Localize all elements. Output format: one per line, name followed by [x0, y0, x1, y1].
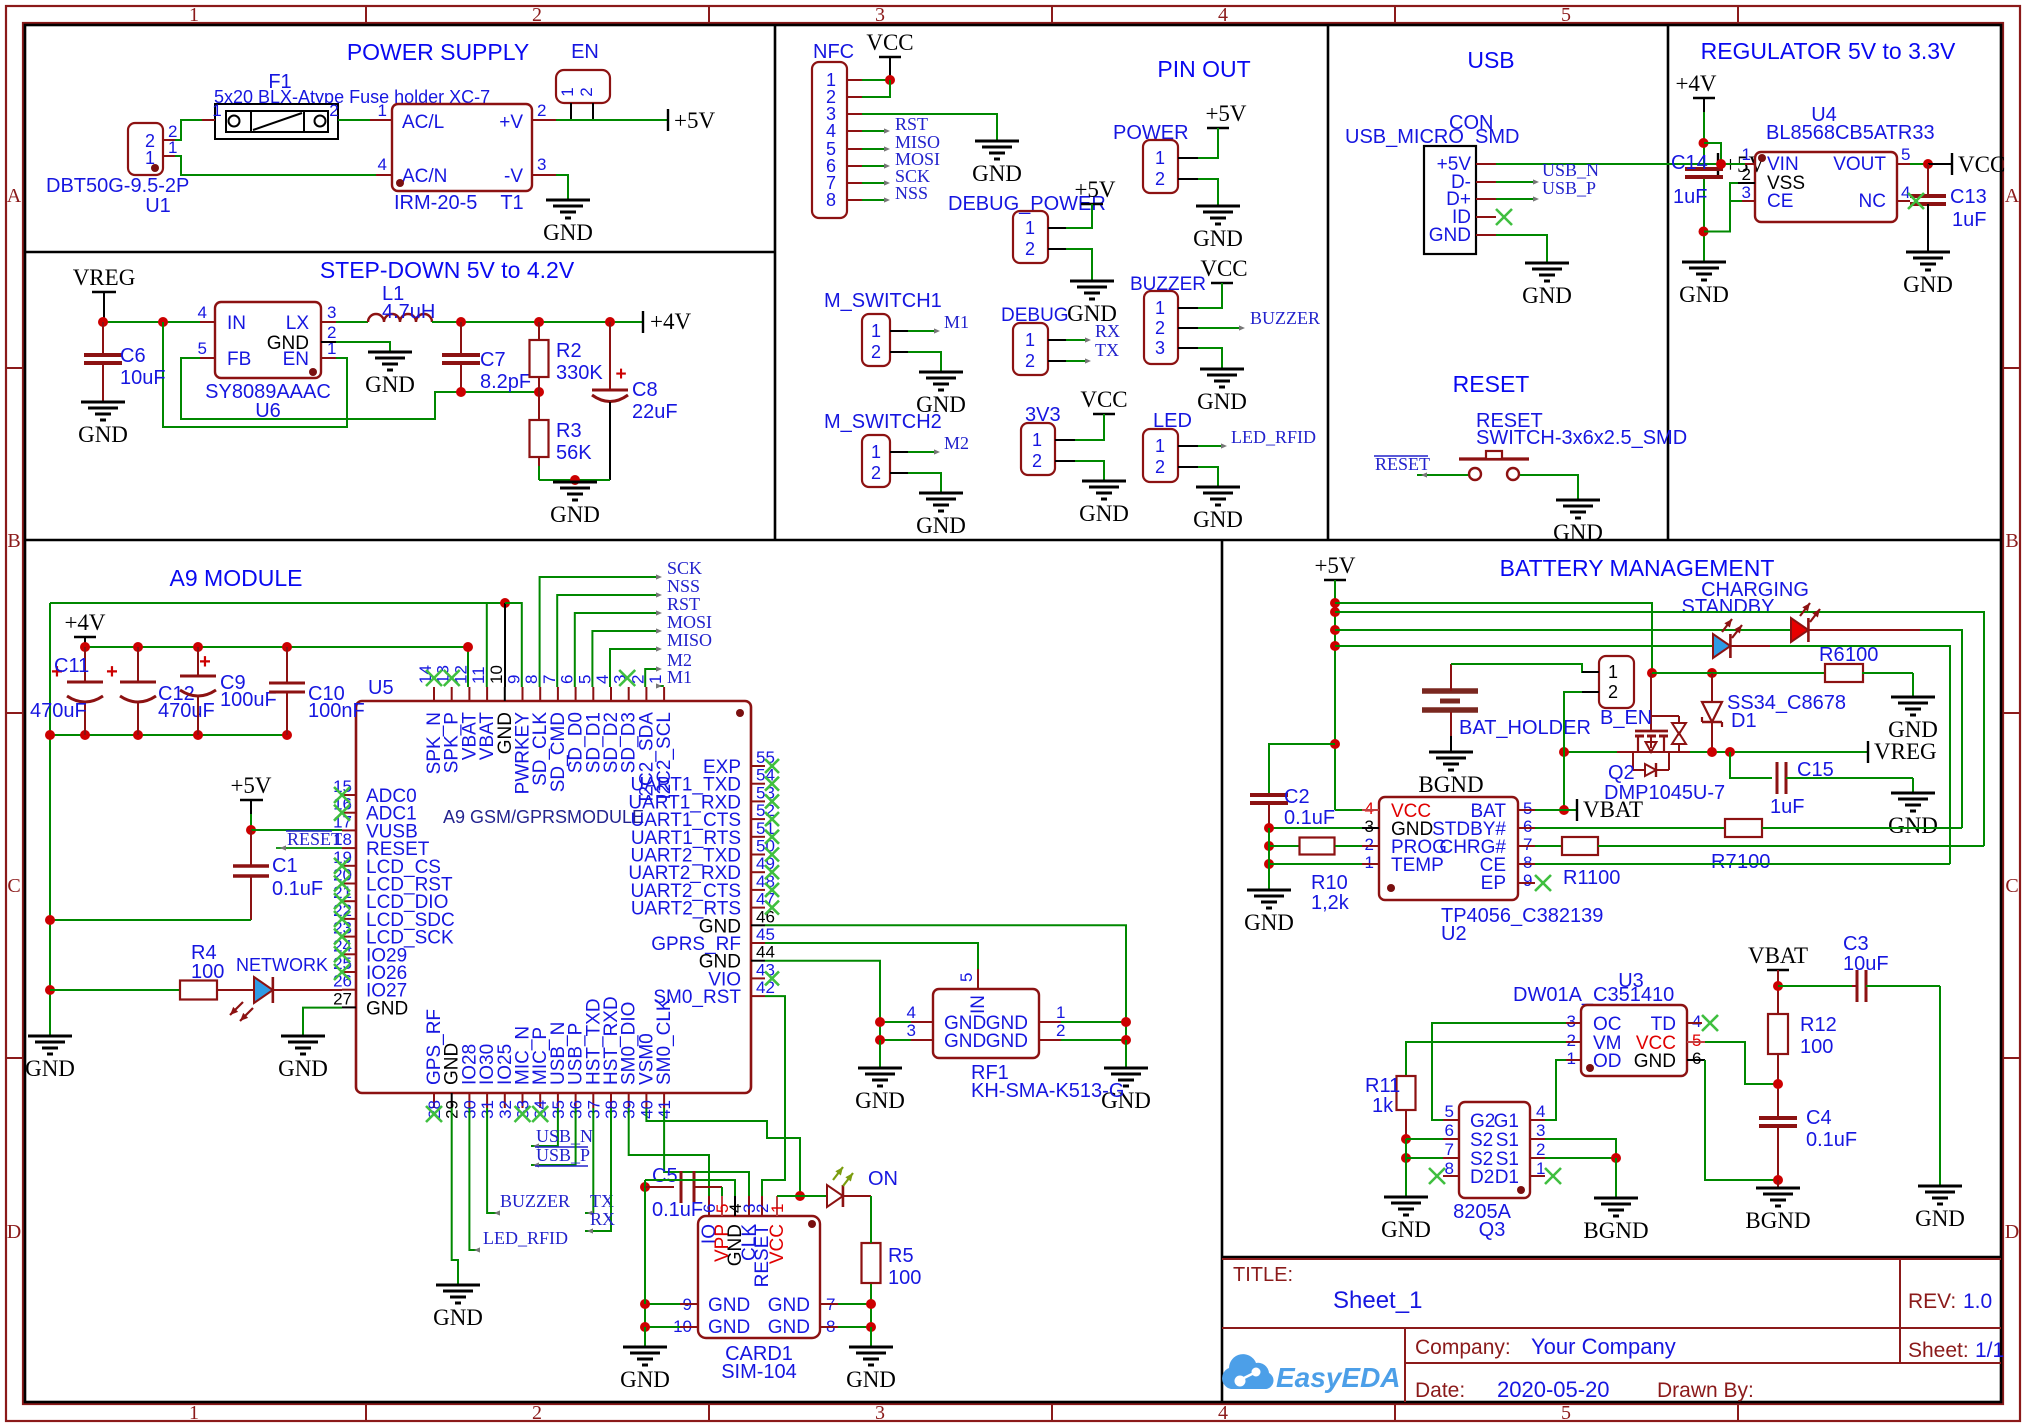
svg-text:+4V: +4V [1675, 71, 1716, 96]
svg-text:S1: S1 [1496, 1130, 1519, 1151]
svg-text:TX: TX [1095, 340, 1119, 360]
svg-text:EN: EN [571, 41, 599, 63]
svg-text:GND: GND [78, 422, 128, 447]
svg-text:1: 1 [1025, 218, 1035, 238]
svg-text:46: 46 [756, 907, 775, 926]
svg-text:GND: GND [708, 1317, 750, 1338]
svg-text:LED_RFID: LED_RFID [1231, 427, 1316, 447]
svg-text:Date:: Date: [1415, 1379, 1465, 1402]
svg-text:1uF: 1uF [1952, 209, 1986, 231]
svg-text:3: 3 [875, 4, 885, 26]
svg-text:R2: R2 [556, 340, 582, 362]
svg-text:470uF: 470uF [158, 700, 215, 722]
svg-text:MOSI: MOSI [667, 612, 712, 632]
svg-text:2: 2 [871, 463, 881, 483]
svg-text:+V: +V [499, 112, 523, 133]
svg-text:VCC: VCC [1200, 256, 1247, 281]
svg-text:REV:: REV: [1908, 1290, 1956, 1313]
svg-text:1: 1 [1608, 662, 1618, 682]
svg-text:45: 45 [756, 925, 775, 944]
svg-text:-V: -V [504, 166, 523, 187]
svg-text:R5: R5 [888, 1245, 914, 1267]
svg-text:1/1: 1/1 [1975, 1339, 2004, 1362]
svg-text:Drawn By:: Drawn By: [1657, 1379, 1754, 1402]
svg-text:32: 32 [496, 1100, 515, 1119]
svg-text:GND: GND [543, 220, 593, 245]
svg-text:D: D [2005, 1221, 2019, 1243]
svg-text:SM0_CLK: SM0_CLK [654, 998, 675, 1085]
svg-text:4.7uH: 4.7uH [382, 301, 435, 323]
svg-text:8.2pF: 8.2pF [480, 371, 531, 393]
svg-text:BAT_HOLDER: BAT_HOLDER [1459, 717, 1591, 739]
svg-text:C15: C15 [1797, 759, 1834, 781]
svg-text:RST: RST [667, 594, 700, 614]
svg-text:RESET: RESET [287, 829, 342, 849]
svg-text:6: 6 [1445, 1121, 1454, 1140]
svg-text:C1: C1 [272, 855, 298, 877]
svg-text:NSS: NSS [667, 576, 700, 596]
svg-text:1: 1 [871, 442, 881, 462]
svg-text:DW01A_C351410: DW01A_C351410 [1513, 984, 1674, 1006]
svg-text:2: 2 [1025, 239, 1035, 259]
svg-text:STANDBY: STANDBY [1682, 596, 1775, 618]
svg-text:11: 11 [469, 666, 488, 684]
svg-text:SIM-104: SIM-104 [721, 1361, 797, 1383]
svg-text:RST: RST [895, 114, 928, 134]
svg-text:1: 1 [1025, 330, 1035, 350]
svg-text:10uF: 10uF [1843, 953, 1889, 975]
svg-text:GND: GND [433, 1305, 483, 1330]
svg-text:USB_MICRO_SMD: USB_MICRO_SMD [1345, 126, 1519, 148]
svg-text:10: 10 [487, 665, 506, 684]
svg-text:C2: C2 [1284, 786, 1310, 808]
svg-text:VBAT: VBAT [1748, 943, 1808, 968]
svg-text:U5: U5 [368, 677, 394, 699]
svg-text:GND: GND [278, 1056, 328, 1081]
svg-text:4: 4 [826, 121, 836, 141]
svg-text:9: 9 [1523, 871, 1532, 890]
svg-text:DBT50G-9.5-2P: DBT50G-9.5-2P [46, 175, 189, 197]
svg-text:FB: FB [227, 349, 251, 370]
svg-text:BGND: BGND [1418, 772, 1483, 797]
svg-text:3: 3 [1365, 817, 1374, 836]
svg-text:A: A [7, 185, 22, 207]
svg-text:1: 1 [212, 101, 221, 120]
svg-text:2: 2 [532, 1402, 542, 1424]
svg-text:1: 1 [871, 321, 881, 341]
svg-text:C11: C11 [54, 655, 89, 677]
svg-text:OC: OC [1593, 1014, 1622, 1035]
svg-text:4: 4 [1536, 1102, 1545, 1121]
svg-text:1: 1 [768, 1204, 787, 1213]
svg-text:1,2k: 1,2k [1311, 892, 1350, 914]
svg-text:VCC: VCC [767, 1224, 788, 1264]
svg-text:Sheet_1: Sheet_1 [1333, 1287, 1422, 1314]
svg-text:C4: C4 [1806, 1107, 1832, 1129]
svg-text:3: 3 [1567, 1012, 1576, 1031]
svg-text:RESET: RESET [1453, 371, 1530, 397]
svg-text:+5V: +5V [1205, 101, 1246, 126]
svg-text:+: + [199, 651, 211, 673]
svg-text:C: C [2005, 875, 2018, 897]
svg-text:GND: GND [1903, 272, 1953, 297]
svg-text:T1: T1 [500, 192, 523, 214]
svg-text:2: 2 [1025, 351, 1035, 371]
svg-text:Sheet:: Sheet: [1908, 1339, 1969, 1362]
svg-text:GND: GND [1679, 282, 1729, 307]
svg-text:4: 4 [1365, 799, 1374, 818]
svg-text:NFC: NFC [813, 41, 854, 63]
svg-text:100nF: 100nF [308, 700, 365, 722]
svg-text:2: 2 [1536, 1140, 1545, 1159]
svg-text:5: 5 [957, 973, 976, 982]
svg-text:BGND: BGND [1583, 1218, 1648, 1243]
svg-text:10uF: 10uF [120, 367, 166, 389]
svg-text:R6: R6 [1819, 644, 1845, 666]
svg-text:4: 4 [1218, 1402, 1228, 1424]
svg-text:GND: GND [550, 502, 600, 527]
svg-text:1k: 1k [1372, 1095, 1394, 1117]
svg-text:5: 5 [1561, 1402, 1571, 1424]
svg-text:2: 2 [1155, 318, 1165, 338]
svg-text:+4V: +4V [64, 610, 105, 635]
svg-text:G1: G1 [1494, 1111, 1519, 1132]
svg-text:EasyEDA: EasyEDA [1276, 1362, 1401, 1393]
svg-text:A9 GSM/GPRSMODULE: A9 GSM/GPRSMODULE [443, 807, 644, 827]
svg-text:GND: GND [1193, 226, 1243, 251]
svg-text:POWER SUPPLY: POWER SUPPLY [347, 39, 529, 65]
svg-text:9: 9 [505, 675, 524, 684]
svg-text:GND: GND [916, 513, 966, 538]
svg-text:VREG: VREG [1874, 739, 1937, 764]
svg-text:GND: GND [1634, 1051, 1676, 1072]
svg-text:G2: G2 [1470, 1111, 1495, 1132]
svg-text:7: 7 [1445, 1140, 1454, 1159]
svg-text:44: 44 [756, 943, 775, 962]
svg-text:1: 1 [1155, 436, 1165, 456]
svg-text:USB_N: USB_N [1542, 160, 1599, 180]
svg-text:56K: 56K [556, 442, 592, 464]
svg-text:C7: C7 [480, 349, 506, 371]
svg-text:+5V: +5V [230, 773, 271, 798]
svg-text:+4V: +4V [650, 309, 691, 334]
svg-text:2020-05-20: 2020-05-20 [1497, 1377, 1610, 1402]
svg-text:GND: GND [986, 1031, 1028, 1052]
svg-text:1: 1 [1032, 430, 1042, 450]
svg-text:+5V: +5V [1314, 553, 1355, 578]
svg-text:R12: R12 [1800, 1014, 1837, 1036]
svg-text:1: 1 [1155, 298, 1165, 318]
svg-text:42: 42 [756, 978, 775, 997]
svg-text:NETWORK: NETWORK [236, 955, 328, 975]
svg-text:SCK: SCK [667, 558, 702, 578]
svg-text:2: 2 [1155, 457, 1165, 477]
svg-text:GND: GND [365, 372, 415, 397]
svg-text:EN: EN [283, 349, 309, 370]
svg-text:1: 1 [189, 4, 199, 26]
svg-text:+: + [106, 661, 118, 683]
svg-text:RX: RX [1095, 321, 1120, 341]
svg-text:100: 100 [191, 961, 224, 983]
svg-text:ON: ON [868, 1168, 898, 1190]
svg-text:5: 5 [1445, 1102, 1454, 1121]
svg-text:GND: GND [1522, 283, 1572, 308]
svg-text:GND: GND [1193, 507, 1243, 532]
svg-text:A: A [2005, 185, 2020, 207]
svg-text:AC/L: AC/L [402, 112, 444, 133]
svg-text:USB_N: USB_N [536, 1126, 593, 1146]
svg-text:3: 3 [327, 303, 336, 322]
svg-text:2: 2 [577, 87, 596, 96]
svg-text:3: 3 [1536, 1121, 1545, 1140]
svg-text:IN: IN [968, 995, 989, 1014]
svg-text:2: 2 [1056, 1021, 1065, 1040]
svg-text:GND: GND [620, 1367, 670, 1392]
svg-text:1uF: 1uF [1770, 796, 1804, 818]
svg-text:TD: TD [1651, 1014, 1676, 1035]
svg-text:3: 3 [1742, 183, 1751, 202]
svg-text:R11: R11 [1365, 1075, 1400, 1097]
svg-text:7: 7 [540, 675, 559, 684]
svg-text:8: 8 [826, 190, 836, 210]
svg-text:1: 1 [189, 1402, 199, 1424]
svg-text:KH-SMA-K513-G: KH-SMA-K513-G [971, 1080, 1124, 1102]
svg-text:100: 100 [888, 1267, 921, 1289]
svg-text:R3: R3 [556, 420, 582, 442]
svg-text:VIN: VIN [1767, 154, 1799, 175]
svg-text:BL8568CB5ATR33: BL8568CB5ATR33 [1766, 122, 1935, 144]
svg-text:PIN OUT: PIN OUT [1157, 56, 1250, 82]
svg-text:M2: M2 [944, 433, 969, 453]
svg-text:GND: GND [1197, 389, 1247, 414]
svg-text:2: 2 [871, 342, 881, 362]
svg-text:M1: M1 [944, 312, 969, 332]
svg-text:R10: R10 [1311, 872, 1348, 894]
svg-text:Company:: Company: [1415, 1336, 1511, 1359]
svg-text:VCC: VCC [866, 30, 913, 55]
svg-text:8: 8 [522, 675, 541, 684]
svg-text:S2: S2 [1470, 1130, 1493, 1151]
svg-text:2: 2 [1155, 169, 1165, 189]
svg-text:BUZZER: BUZZER [1250, 308, 1320, 328]
svg-text:GND: GND [1079, 501, 1129, 526]
svg-text:6: 6 [558, 675, 577, 684]
svg-text:C14: C14 [1671, 152, 1708, 174]
svg-text:5: 5 [1561, 4, 1571, 26]
svg-text:VCC: VCC [1958, 152, 2005, 177]
svg-text:U1: U1 [145, 195, 171, 217]
svg-text:+: + [615, 364, 626, 385]
svg-text:7: 7 [1523, 835, 1532, 854]
svg-text:1: 1 [378, 101, 387, 120]
svg-text:GND: GND [1381, 1217, 1431, 1242]
svg-text:C6: C6 [120, 345, 146, 367]
svg-text:GND: GND [972, 161, 1022, 186]
svg-text:D: D [7, 1221, 21, 1243]
svg-text:100: 100 [1737, 851, 1770, 873]
svg-text:0.1uF: 0.1uF [652, 1199, 703, 1221]
svg-text:4: 4 [198, 303, 207, 322]
svg-text:2: 2 [1365, 835, 1374, 854]
svg-text:NC: NC [1859, 191, 1886, 212]
svg-text:D1: D1 [1731, 710, 1757, 732]
svg-text:STEP-DOWN 5V to 4.2V: STEP-DOWN 5V to 4.2V [320, 257, 575, 283]
svg-text:6: 6 [1692, 1049, 1701, 1068]
svg-text:A9 MODULE: A9 MODULE [170, 565, 303, 591]
svg-text:RX: RX [590, 1209, 615, 1229]
svg-text:B: B [7, 530, 20, 552]
svg-text:GND: GND [25, 1056, 75, 1081]
svg-text:22uF: 22uF [632, 401, 678, 423]
svg-text:4: 4 [1218, 4, 1228, 26]
svg-text:C5: C5 [652, 1165, 678, 1187]
svg-text:AC/N: AC/N [402, 166, 447, 187]
svg-text:GND: GND [855, 1088, 905, 1113]
svg-text:27: 27 [333, 989, 352, 1008]
svg-text:2: 2 [537, 101, 546, 120]
svg-text:MISO: MISO [667, 630, 712, 650]
svg-text:3: 3 [537, 155, 546, 174]
svg-text:OD: OD [1593, 1051, 1622, 1072]
svg-text:RESET: RESET [1375, 454, 1430, 474]
svg-text:CE: CE [1767, 191, 1793, 212]
svg-text:LED_RFID: LED_RFID [483, 1228, 568, 1248]
svg-text:0.1uF: 0.1uF [272, 878, 323, 900]
svg-text:Q3: Q3 [1479, 1219, 1506, 1241]
svg-text:1: 1 [1056, 1003, 1065, 1022]
svg-text:D1: D1 [1495, 1167, 1519, 1188]
svg-text:D2: D2 [1470, 1167, 1494, 1188]
svg-text:VOUT: VOUT [1833, 154, 1886, 175]
svg-text:GND: GND [1915, 1206, 1965, 1231]
svg-text:330K: 330K [556, 362, 603, 384]
svg-text:0.1uF: 0.1uF [1284, 807, 1335, 829]
svg-text:TITLE:: TITLE: [1233, 1264, 1293, 1286]
svg-text:+5V: +5V [1074, 177, 1115, 202]
svg-text:BGND: BGND [1745, 1208, 1810, 1233]
svg-text:M_SWITCH1: M_SWITCH1 [824, 290, 942, 312]
svg-text:1: 1 [1742, 145, 1751, 164]
svg-text:Your Company: Your Company [1531, 1334, 1676, 1359]
svg-text:2: 2 [329, 101, 338, 120]
svg-text:USB_P: USB_P [536, 1145, 590, 1165]
svg-text:GND: GND [1244, 910, 1294, 935]
svg-text:6: 6 [1523, 817, 1532, 836]
svg-text:1: 1 [646, 675, 665, 684]
svg-text:C3: C3 [1843, 933, 1869, 955]
svg-text:5: 5 [1523, 799, 1532, 818]
svg-text:BUZZER: BUZZER [500, 1191, 570, 1211]
svg-text:1: 1 [558, 87, 577, 96]
svg-text:EP: EP [1481, 873, 1506, 894]
svg-text:470uF: 470uF [30, 700, 87, 722]
svg-text:IRM-20-5: IRM-20-5 [394, 192, 477, 214]
svg-text:100: 100 [1845, 644, 1878, 666]
svg-text:VBAT: VBAT [1583, 797, 1643, 822]
svg-text:5: 5 [1901, 145, 1910, 164]
svg-text:5: 5 [198, 339, 207, 358]
svg-text:VCC: VCC [1080, 387, 1127, 412]
svg-text:USB_P: USB_P [1542, 178, 1596, 198]
svg-text:GND: GND [1429, 225, 1471, 246]
svg-text:SWITCH-3x6x2.5_SMD: SWITCH-3x6x2.5_SMD [1476, 427, 1687, 449]
svg-text:B_EN: B_EN [1600, 707, 1652, 729]
svg-text:100: 100 [1587, 867, 1620, 889]
svg-text:M1: M1 [667, 667, 692, 687]
svg-text:2: 2 [1608, 682, 1618, 702]
svg-text:1: 1 [1365, 853, 1374, 872]
svg-text:GND: GND [846, 1367, 896, 1392]
svg-text:IN: IN [227, 313, 246, 334]
svg-text:C13: C13 [1950, 186, 1987, 208]
svg-text:3: 3 [1155, 338, 1165, 358]
svg-text:BATTERY MANAGEMENT: BATTERY MANAGEMENT [1500, 555, 1775, 581]
svg-text:2: 2 [1032, 451, 1042, 471]
svg-text:GND: GND [768, 1317, 810, 1338]
svg-text:LX: LX [286, 313, 310, 334]
svg-text:2: 2 [1742, 165, 1751, 184]
svg-text:3: 3 [875, 1402, 885, 1424]
svg-text:GND: GND [708, 1295, 750, 1316]
svg-text:VREG: VREG [73, 265, 136, 290]
svg-text:2: 2 [1567, 1031, 1576, 1050]
svg-text:+5V: +5V [674, 108, 715, 133]
svg-text:GND: GND [768, 1295, 810, 1316]
svg-text:0.1uF: 0.1uF [1806, 1129, 1857, 1151]
svg-text:100: 100 [1800, 1036, 1833, 1058]
svg-text:3: 3 [907, 1021, 916, 1040]
svg-text:C8: C8 [632, 379, 658, 401]
svg-text:8: 8 [1523, 853, 1532, 872]
svg-text:GND: GND [944, 1031, 986, 1052]
svg-text:5: 5 [1692, 1031, 1701, 1050]
svg-text:USB: USB [1467, 47, 1514, 73]
svg-text:NSS: NSS [895, 183, 928, 203]
svg-text:1: 1 [1155, 148, 1165, 168]
svg-text:TEMP: TEMP [1391, 855, 1444, 876]
svg-text:R1: R1 [1563, 867, 1589, 889]
svg-text:C: C [7, 875, 20, 897]
svg-text:100uF: 100uF [220, 689, 277, 711]
svg-text:M_SWITCH2: M_SWITCH2 [824, 411, 942, 433]
svg-text:GND: GND [1888, 813, 1938, 838]
svg-text:R7: R7 [1711, 851, 1737, 873]
svg-text:4: 4 [1692, 1012, 1701, 1031]
svg-text:4: 4 [907, 1003, 916, 1022]
svg-text:GND: GND [366, 998, 408, 1019]
svg-text:Q2: Q2 [1608, 762, 1635, 784]
svg-text:REGULATOR 5V to 3.3V: REGULATOR 5V to 3.3V [1701, 38, 1956, 64]
svg-text:U2: U2 [1441, 923, 1467, 945]
svg-text:1uF: 1uF [1673, 186, 1707, 208]
svg-text:B: B [2005, 530, 2018, 552]
svg-text:1: 1 [1567, 1049, 1576, 1068]
svg-text:26: 26 [333, 972, 352, 991]
svg-text:4: 4 [378, 155, 387, 174]
svg-text:GND: GND [1553, 520, 1603, 545]
svg-text:2: 2 [532, 4, 542, 26]
svg-text:1.0: 1.0 [1963, 1290, 1992, 1313]
